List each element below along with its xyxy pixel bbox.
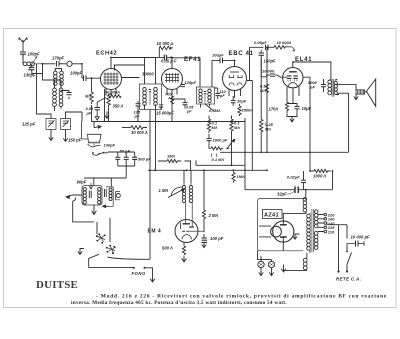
- node: EBC41 grid: [234, 60, 236, 62]
- svg-text:0.5MΛ: 0.5MΛ: [209, 108, 221, 113]
- ground (switch): [78, 249, 84, 255]
- svg-text:30 000 Λ: 30 000 Λ: [131, 130, 148, 135]
- tube EF41: [162, 69, 183, 122]
- resistor 30 000 Λ (AVC, horizontal): [122, 126, 147, 130]
- capacitor 1000 pF: [207, 134, 212, 144]
- svg-text:MΛ: MΛ: [234, 125, 240, 130]
- resistor 1MΛ (horizontal, detector): [158, 159, 191, 170]
- resistor 700 Λ (EF41 cathode): [171, 96, 174, 104]
- potentiometer 1 MΛ (EM4 grid): [168, 187, 184, 198]
- resistor 350Λ: [107, 93, 111, 108]
- node: AVC / 0.1M: [231, 164, 233, 166]
- svg-text:150pF: 150pF: [264, 59, 277, 64]
- svg-text:DUITSE: DUITSE: [36, 279, 78, 291]
- capacitor 10μF (cathode bypass): [295, 103, 300, 112]
- svg-text:ECH42: ECH42: [96, 51, 117, 57]
- ground (speaker frame): [354, 94, 358, 100]
- wire AVC line: [196, 164, 245, 166]
- wire switch to FONO line: [108, 257, 151, 259]
- ground arrow (EM4 cathode): [182, 256, 187, 262]
- node: audio line / rail: [244, 151, 246, 153]
- capacitor 500 pF: [132, 152, 137, 166]
- wire cathode parts to bus: [92, 105, 109, 122]
- svg-text:0.05μF: 0.05μF: [254, 40, 267, 45]
- svg-text:MΛ: MΛ: [212, 125, 218, 130]
- svg-text:1 MΛ: 1 MΛ: [159, 188, 169, 193]
- svg-text:30 000Λ: 30 000Λ: [105, 90, 120, 95]
- capacitor 125 pF (IF1 tune): [136, 101, 141, 122]
- resistor 10 000Λ (B+ dropper top left): [159, 46, 173, 57]
- pilot lamp 1: [258, 260, 264, 270]
- label box AZ41: [263, 210, 283, 219]
- mains terminals: [337, 225, 348, 273]
- capacitor 100μF (EBC41 grid coupling): [212, 58, 235, 87]
- capacitor 100pF (ECH42 grid): [82, 75, 101, 81]
- svg-text:50 pF: 50 pF: [120, 149, 131, 154]
- capacitor 0.05μF (EF41 cathode bypass): [172, 99, 188, 108]
- wire switch to coils: [94, 178, 112, 242]
- svg-text:100pF: 100pF: [28, 52, 41, 57]
- svg-text:1MΛ: 1MΛ: [167, 154, 176, 159]
- rectifier enclosure box: [258, 199, 307, 251]
- tube AZ41: [259, 213, 306, 250]
- svg-text:350 Λ: 350 Λ: [113, 104, 124, 109]
- resistor 1000 Λ (field/dropper horizontal): [309, 169, 333, 172]
- resistor 1500Λ: [238, 104, 241, 116]
- node: bus / 1M: [233, 169, 235, 171]
- wire riser IF1 to FONO switch: [149, 110, 151, 260]
- capacitor 100pF (antenna series): [20, 52, 26, 58]
- svg-text:μF: μF: [186, 109, 192, 113]
- capacitor 50 pF: [115, 152, 120, 166]
- capacitor 170pF: [57, 61, 64, 67]
- ground (lamp 2): [269, 270, 273, 276]
- svg-text:30000: 30000: [142, 72, 154, 77]
- resistor 0.1 MΛ (left): [207, 116, 210, 133]
- ground in box: [293, 234, 300, 239]
- svg-text:FONO: FONO: [132, 271, 146, 276]
- svg-text:150 pF: 150 pF: [68, 138, 82, 143]
- svg-text:MΛ: MΛ: [85, 94, 91, 99]
- node: 150pF / 0.25M rail: [260, 151, 262, 153]
- svg-text:1000 pF: 1000 pF: [213, 138, 228, 143]
- wire 1000pF to tone resistor: [209, 144, 211, 149]
- svg-text:10μF: 10μF: [237, 99, 247, 104]
- svg-text:32μF: 32μF: [277, 192, 287, 197]
- svg-text:MΛ: MΛ: [265, 127, 271, 132]
- svg-text:130pF: 130pF: [104, 143, 116, 148]
- resistor 0.5 MΛ (EL41 grid leak): [265, 84, 268, 94]
- svg-text:pF: pF: [134, 114, 140, 119]
- wire node to 170pF cap: [43, 63, 56, 65]
- capacitor 32μF (filter): [287, 186, 333, 194]
- ground bus RF section: [92, 121, 246, 123]
- node: EF41 plate: [171, 57, 173, 59]
- wire EL41 plate to output transformer: [293, 61, 331, 63]
- wire 0.1M bottom to AVC line: [196, 133, 232, 165]
- tube EM4 (magic eye): [175, 220, 204, 247]
- IF transformer 2 shield box: [197, 87, 215, 111]
- arrow (osc coil adjust): [66, 195, 82, 198]
- node: bus / B+: [266, 169, 268, 171]
- svg-text:110: 110: [328, 229, 335, 234]
- wire cap tops: [84, 152, 135, 178]
- svg-text:90pF: 90pF: [77, 180, 87, 185]
- svg-text:100 pF: 100 pF: [210, 236, 224, 241]
- wire lamps feed: [258, 251, 272, 260]
- link circle (fuse): [63, 61, 82, 66]
- node: bus / 2M: [203, 169, 205, 171]
- resistor 500 Λ (EM4 cathode): [182, 246, 185, 255]
- wire cathode to ground: [287, 104, 297, 117]
- B+ rail horizontal: [220, 93, 349, 152]
- output transformer: [328, 61, 339, 96]
- svg-text:100pF: 100pF: [70, 71, 83, 76]
- svg-text:500 Λ: 500 Λ: [162, 246, 173, 251]
- wire gang bus: [81, 112, 83, 122]
- svg-text:500 pF: 500 pF: [138, 157, 151, 162]
- svg-text:125pF: 125pF: [185, 80, 197, 85]
- ground (EL41 cathode): [290, 117, 294, 122]
- RF coil pair (aerial band coils): [52, 80, 63, 111]
- antenna coupling coil: [23, 54, 43, 70]
- wire B+ feed to rectifier: [245, 189, 295, 191]
- capacitor 0.02μF: [301, 180, 306, 182]
- ground (lamp 1): [259, 270, 263, 276]
- capacitor 130pF (antenna shunt): [29, 66, 43, 74]
- resistor 0.1 MΛ (right): [230, 116, 233, 133]
- svg-text:pF: pF: [219, 94, 225, 98]
- band switch rotor 2: [106, 245, 116, 254]
- EM4 coupling coils: [182, 183, 192, 227]
- capacitor 110pF (IF2 tune): [215, 88, 221, 99]
- node: B+ top: [266, 46, 268, 48]
- svg-text:170pF: 170pF: [52, 56, 65, 61]
- capacitor 125pF (EF41 grid): [181, 85, 186, 87]
- resistor 170Λ (EL41 cathode): [285, 98, 288, 113]
- node: bus / EM4: [186, 169, 188, 171]
- capacitor 15000 (to bus): [145, 105, 164, 171]
- IF transformer 1 shield box: [140, 84, 162, 110]
- capacitor 100 pF: [202, 234, 208, 242]
- capacitor 10μF (EBC41 cathode): [231, 96, 236, 106]
- node: EL41 grid: [266, 74, 268, 76]
- svg-text:EM 4: EM 4: [148, 229, 162, 235]
- ground (tuning cap 2): [63, 136, 67, 141]
- resistor 1MΛ (AVC to bus): [232, 172, 235, 183]
- tube EL41: [281, 62, 311, 103]
- capacitor 5000 pF (tone across primary): [321, 79, 326, 92]
- antenna: [19, 38, 27, 53]
- ground (tuning cap 1): [49, 135, 53, 140]
- speaker: [337, 79, 376, 106]
- wire tap to mains: [327, 223, 347, 239]
- volume potentiometer: [82, 122, 101, 147]
- capacitor 0.05μF (cathode): [95, 98, 107, 113]
- wire B+ screen line: [309, 77, 311, 171]
- svg-text:- Modd. 216 e 226 - Ricevitori: - Modd. 216 e 226 - Ricevitori con valvo…: [96, 294, 387, 300]
- node: bus / audio: [244, 169, 246, 171]
- potentiometer arrow (tone): [227, 139, 235, 149]
- svg-text:Λ: Λ: [167, 96, 171, 101]
- wire B+ vertical (x=267): [261, 47, 267, 152]
- svg-text:125 pF: 125 pF: [22, 122, 36, 127]
- wire osc arrow to switch ground loop: [73, 198, 94, 222]
- node: B+ rail / x267: [266, 151, 268, 153]
- capacitor 10 000 pF (mains filter): [347, 241, 365, 247]
- ground (FONO): [150, 278, 155, 282]
- node: EL41 plate: [292, 61, 294, 63]
- svg-text:10 000Λ: 10 000Λ: [277, 40, 292, 45]
- resistor 0.25 MΛ (feedback, vertical): [260, 119, 263, 152]
- resistor 2 MΛ: [202, 170, 205, 232]
- tube EBC41: [223, 60, 247, 98]
- filament winding (bottom): [285, 253, 307, 271]
- tuning gang: variable capacitor 1: [46, 119, 56, 136]
- svg-text:2 MΛ: 2 MΛ: [208, 213, 219, 218]
- switch wafer (pickup): [92, 144, 108, 156]
- svg-text:RETE C.A.: RETE C.A.: [336, 277, 361, 282]
- capacitor 150pF: [259, 50, 265, 119]
- wire rail down to 1000Λ: [332, 171, 334, 190]
- wire ECH42 triode grid pin to bus: [104, 89, 106, 122]
- wire ECH42 screen feed: [115, 65, 145, 71]
- node: RF input junction: [81, 63, 83, 65]
- node: bus / 15000: [154, 169, 156, 171]
- wire ECH42 plate to IF1: [111, 58, 156, 85]
- node: B+ rail / screen feed: [309, 151, 311, 153]
- RF coil pair (upper band coils): [54, 69, 64, 86]
- wire ECH42 heptode anode to IF1: [121, 77, 139, 79]
- wire down from antenna node: [43, 64, 52, 80]
- resistor 0.1MΛ (tone, horizontal): [211, 147, 230, 157]
- svg-text:10 000 μ: 10 000 μ: [157, 41, 174, 46]
- wire RF line to grid cap: [81, 64, 83, 78]
- tube ECH42: [101, 58, 122, 96]
- wire bus to EM4 coils: [184, 170, 191, 183]
- svg-text:0.05 μ F: 0.05 μ F: [161, 59, 177, 64]
- resistor 30 000Λ (osc anode, horizontal): [108, 95, 122, 98]
- power transformer: [307, 209, 318, 253]
- svg-text:0.1 MΛ: 0.1 MΛ: [212, 157, 225, 162]
- svg-text:0.02μF: 0.02μF: [287, 175, 300, 180]
- junction dot: [305, 189, 307, 191]
- svg-text:1000 Λ: 1000 Λ: [313, 174, 326, 179]
- oscillator trimmer unit: [103, 187, 114, 208]
- svg-text:100μF: 100μF: [212, 53, 224, 58]
- oscillator padder: [116, 192, 121, 200]
- capacitor (RF trimmer): [61, 91, 72, 100]
- wire antenna node to RF line: [32, 73, 43, 75]
- mains switch: [346, 244, 351, 265]
- wire vertical x=245 (audio line): [244, 118, 246, 190]
- capacitor 10 000 (EL41 grid): [267, 74, 281, 77]
- node: bus / riser: [149, 169, 151, 171]
- FONO terminals: [89, 254, 153, 277]
- capacitor 250 pF: [124, 152, 129, 166]
- svg-text:10 000 pF: 10 000 pF: [351, 235, 371, 240]
- ground (AZ41 center): [281, 265, 286, 272]
- pilot lamp 2: [268, 260, 274, 270]
- ground arrow on bus: [105, 112, 109, 119]
- svg-text:1MΛ: 1MΛ: [237, 174, 246, 179]
- svg-text:μF: μF: [86, 111, 92, 116]
- svg-text:inversa. Media frequenza 465 k: inversa. Media frequenza 465 kc. Potenza…: [71, 300, 287, 306]
- svg-text:MΛ: MΛ: [260, 88, 266, 93]
- ground (osc coil): [92, 206, 97, 215]
- svg-text:1500Λ: 1500Λ: [242, 108, 254, 113]
- resistor 1MΛ (osc grid): [90, 77, 94, 104]
- wire EF41 plate to IF2: [172, 58, 200, 87]
- svg-text:170Λ: 170Λ: [269, 107, 279, 112]
- bus line (AVC/detector, y=170): [148, 169, 267, 171]
- svg-text:AZ41: AZ41: [264, 213, 279, 219]
- filter choke coil: [303, 190, 307, 214]
- node: ECH42 plate: [110, 57, 112, 59]
- oscillator coil assembly (bottom left): [82, 183, 102, 206]
- transformer tap terminals: [318, 213, 327, 233]
- node: antenna junction: [42, 63, 44, 65]
- capacitor 0.05μF + resistor 10 000Λ (EBC41 plate RC): [247, 45, 295, 171]
- band switch rotor 1: [96, 233, 106, 243]
- svg-text:10 000: 10 000: [262, 69, 275, 74]
- wire tuning gang to RF coils: [37, 64, 83, 119]
- tuning gang: variable capacitor 2: [61, 119, 71, 137]
- ground (100 pF): [202, 242, 206, 247]
- capacitor 0.05μF (decoupling): [156, 55, 174, 61]
